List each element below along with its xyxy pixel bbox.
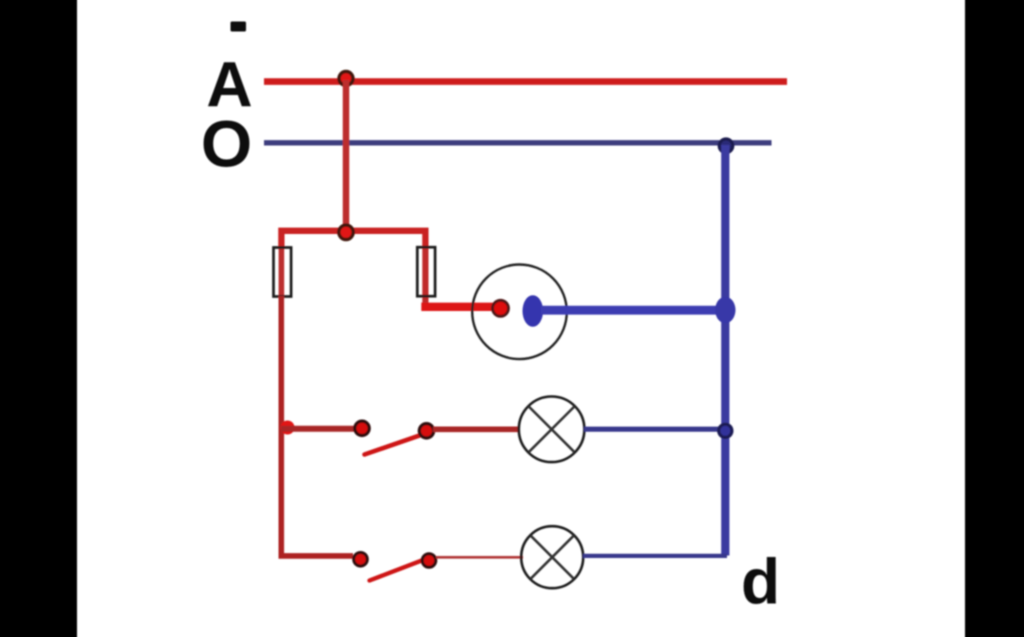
lamp L1 [519, 397, 585, 463]
switch S2 lever [370, 560, 424, 581]
wire thick feed to socket [421, 303, 497, 311]
switch S2 contact a [354, 553, 368, 567]
letterbox left [0, 0, 77, 637]
wire lamp L1 to neutral bus [584, 427, 723, 432]
svg-text:O: O [201, 107, 252, 181]
wire neutral line O [264, 140, 772, 145]
fuse F2 [417, 247, 435, 296]
wire vertical feed from A [343, 80, 350, 231]
wire thick neutral from socket to bus [541, 306, 724, 315]
node row1 tap on left drop [281, 421, 295, 435]
wire neutral vertical bus [721, 145, 729, 556]
node junction socket-neutral on bus [715, 297, 735, 323]
wire switch S1 to lamp L1 [433, 426, 520, 432]
wire through right fuse [422, 247, 428, 304]
wire red distribution bus left branch [281, 231, 346, 249]
switch S1 contact b [419, 424, 433, 438]
socket neutral pin [523, 295, 544, 327]
wire left vertical drop and row2 branch [281, 296, 353, 556]
node junction lamp1-neutral on bus [719, 424, 732, 437]
fuse F1 [274, 248, 292, 297]
wire red distribution bus right branch [346, 231, 425, 249]
node junction on distribution bus [339, 225, 353, 239]
wire row1 to switch [281, 426, 355, 432]
wire switch S2 to lamp L2 [436, 556, 523, 559]
switch S2 contact b [422, 554, 436, 568]
letterbox right [965, 0, 1024, 637]
node junction on O line [719, 139, 733, 153]
wire lamp L2 to neutral bus corner [583, 554, 727, 558]
socket X1 outline [472, 265, 567, 360]
svg-text:d: d [741, 546, 780, 618]
lamp L2 [521, 526, 583, 588]
switch S1 lever [365, 435, 422, 455]
node junction on A line [339, 72, 353, 86]
label minus sign [231, 22, 247, 32]
socket phase pin [493, 300, 509, 316]
wire through left fuse [279, 247, 285, 298]
wire phase line A [264, 78, 787, 85]
switch S1 contact a [355, 421, 369, 435]
